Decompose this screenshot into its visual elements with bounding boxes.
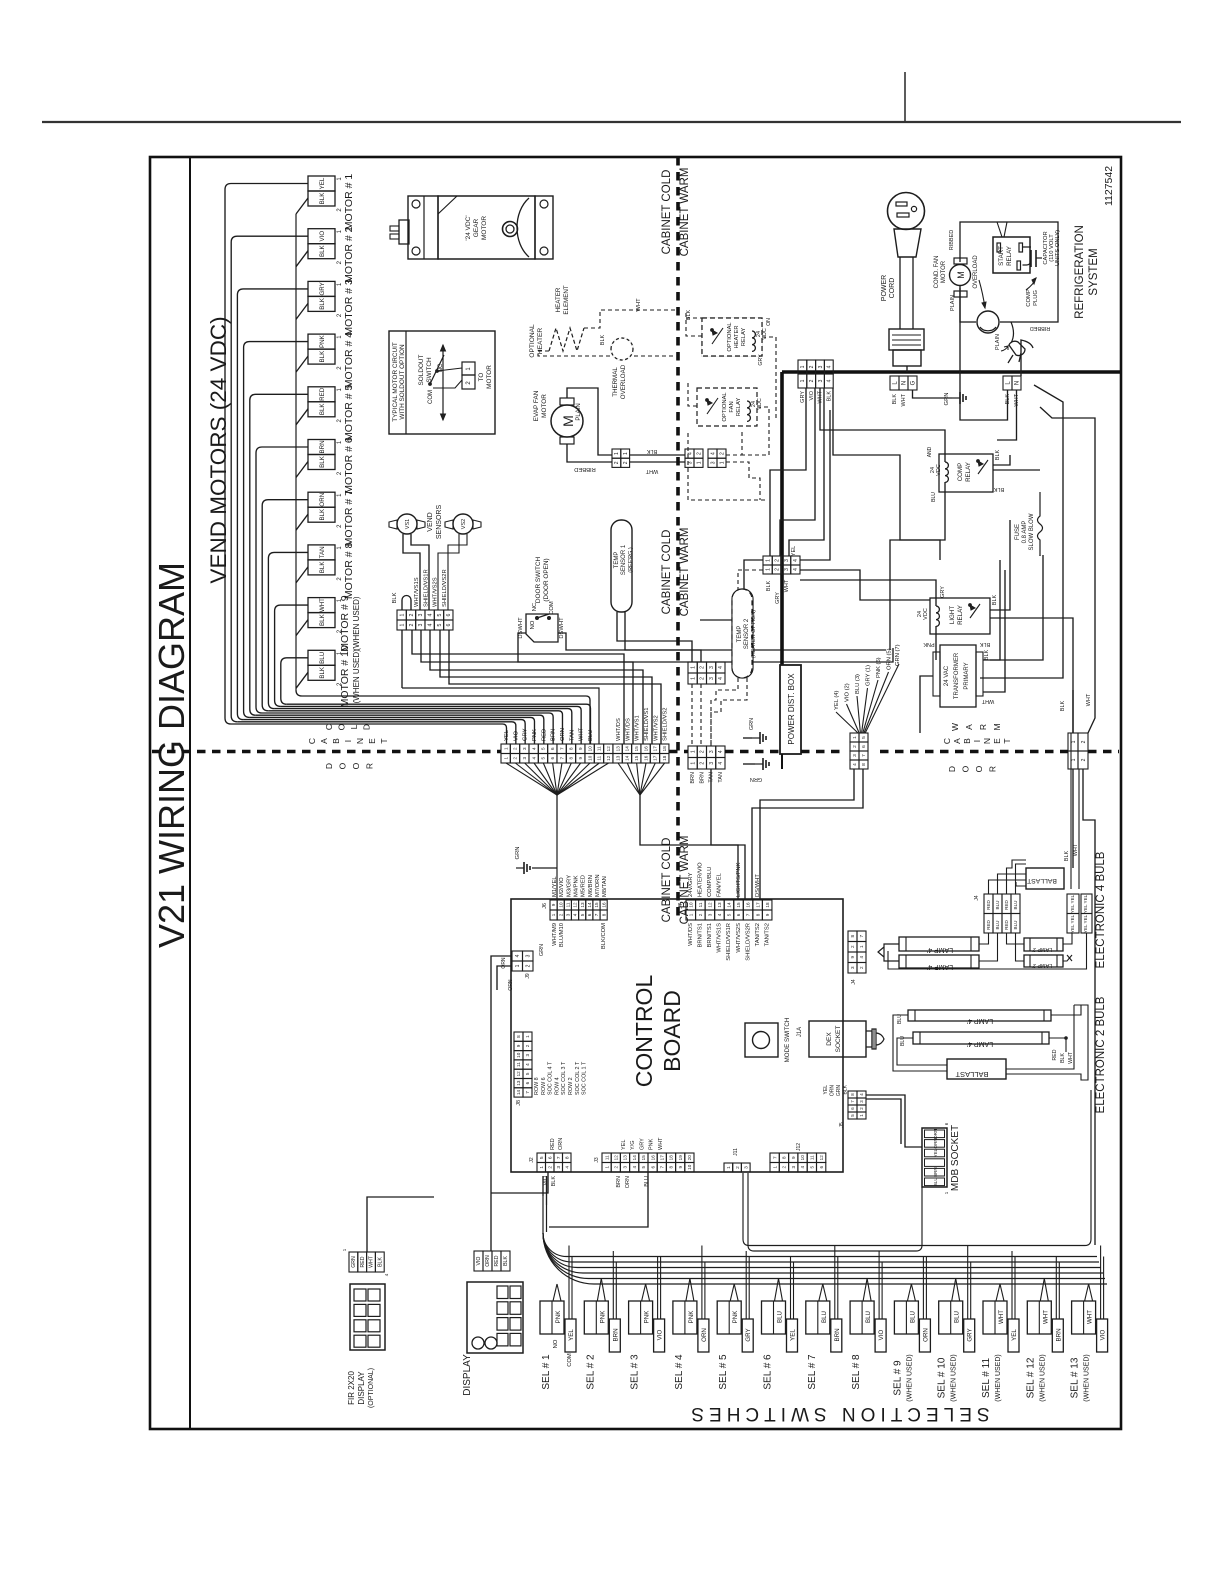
power dist box label: [780, 665, 801, 754]
svg-text:WHT: WHT: [658, 1137, 664, 1150]
svg-text:18: 18: [662, 755, 667, 761]
svg-text:4: 4: [852, 763, 858, 766]
svg-text:GRN: GRN: [351, 1256, 357, 1268]
svg-text:BLK: BLK: [600, 334, 606, 345]
svg-text:13: 13: [615, 746, 620, 752]
svg-text:17: 17: [755, 902, 760, 908]
svg-text:10: 10: [587, 755, 592, 761]
svg-text:ORN: ORN: [933, 1129, 938, 1139]
svg-text:ROW 6: ROW 6: [541, 1077, 547, 1095]
svg-text:PNK: PNK: [649, 1138, 655, 1150]
svg-text:HEATER: HEATER: [555, 287, 562, 312]
wire bus line 2 with MDB riser: [748, 1173, 922, 1251]
svg-text:1: 1: [800, 379, 806, 382]
wire evap fan to connector: [567, 388, 612, 455]
svg-text:5: 5: [541, 747, 546, 750]
svg-text:GEAR: GEAR: [473, 218, 480, 237]
svg-text:11: 11: [597, 746, 602, 751]
svg-text:BLU: BLU: [319, 652, 326, 664]
svg-text:PLAIN: PLAIN: [950, 295, 956, 311]
svg-text:5: 5: [580, 913, 585, 916]
svg-text:16: 16: [601, 902, 606, 908]
svg-text:VIO: VIO: [809, 390, 815, 400]
svg-text:SHIELD/VS2R: SHIELD/VS2R: [745, 923, 751, 961]
door lighting connector: [1068, 733, 1078, 751]
svg-text:START: START: [998, 246, 1005, 266]
svg-text:L: L: [349, 724, 359, 729]
svg-text:C: C: [942, 738, 952, 744]
svg-text:MOTOR # 10: MOTOR # 10: [339, 645, 351, 707]
svg-text:4: 4: [793, 568, 799, 571]
selection switch SEL#7: [806, 1301, 830, 1334]
svg-text:BRN: BRN: [933, 1167, 938, 1177]
svg-text:D: D: [324, 763, 334, 769]
svg-text:2: 2: [409, 613, 415, 616]
svg-text:BRN: BRN: [612, 1328, 619, 1341]
svg-text:13: 13: [615, 755, 620, 761]
lamp connector grid: [984, 894, 993, 914]
wires 2ft lamps right: [1063, 933, 1072, 944]
svg-text:SOC COL 3 T: SOC COL 3 T: [561, 1061, 567, 1095]
svg-text:ON: ON: [766, 318, 772, 326]
svg-text:ORN (5): ORN (5): [887, 648, 893, 670]
svg-text:POWER: POWER: [881, 275, 888, 301]
svg-text:DOOR SWITCH: DOOR SWITCH: [535, 557, 542, 604]
svg-text:2: 2: [547, 1166, 553, 1169]
svg-text:1: 1: [690, 762, 696, 765]
connector J11: [724, 1163, 733, 1172]
refrigeration circuit loop: [960, 222, 1058, 322]
svg-text:J2: J2: [529, 1157, 535, 1163]
wires to cabinet connector: [630, 454, 685, 456]
motor connector M2: [308, 229, 335, 244]
svg-text:SEL # 8: SEL # 8: [851, 1354, 862, 1390]
svg-text:17: 17: [659, 1155, 664, 1161]
dashed wires fan relay box: [688, 380, 697, 406]
temp sensor 1: [611, 520, 632, 612]
svg-text:6: 6: [550, 757, 555, 760]
svg-text:CABINET WARM: CABINET WARM: [679, 168, 691, 257]
svg-text:M4/PNK: M4/PNK: [573, 875, 579, 897]
svg-text:2: 2: [700, 750, 706, 753]
svg-text:OPTIONAL: OPTIONAL: [529, 324, 536, 358]
svg-text:CABINET COLD: CABINET COLD: [661, 838, 673, 923]
svg-text:TAN: TAN: [319, 546, 326, 558]
svg-text:ORN: ORN: [701, 1328, 708, 1342]
svg-text:1: 1: [503, 747, 508, 750]
svg-text:RELAY: RELAY: [957, 605, 964, 625]
svg-text:BALLAST: BALLAST: [1027, 877, 1057, 884]
wires lighting connector up: [1072, 690, 1074, 733]
svg-text:D: D: [947, 766, 957, 772]
svg-text:W: W: [950, 723, 960, 731]
svg-text:15: 15: [594, 902, 599, 908]
connector J12: [770, 1153, 779, 1163]
svg-text:BLK: BLK: [843, 1084, 849, 1094]
svg-text:RED: RED: [360, 1256, 366, 1267]
to-motor connector: [462, 362, 475, 375]
24 VDC gear motor: [408, 196, 438, 259]
page header rule: [42, 121, 1181, 123]
svg-text:YEL: YEL: [823, 1085, 829, 1095]
svg-text:1: 1: [696, 461, 702, 464]
svg-text:16: 16: [746, 902, 751, 908]
svg-text:TAN: TAN: [718, 772, 724, 783]
svg-text:6: 6: [650, 1166, 655, 1169]
svg-text:2: 2: [525, 1044, 530, 1047]
svg-text:PNK: PNK: [923, 641, 935, 647]
svg-text:RIBBED: RIBBED: [1030, 325, 1051, 331]
svg-text:BLK: BLK: [993, 486, 1004, 492]
temp sensor 2: [732, 589, 753, 678]
svg-text:1: 1: [690, 666, 696, 669]
vend sensor VS1: [397, 514, 417, 534]
svg-text:4: 4: [718, 762, 724, 765]
svg-text:BLK: BLK: [646, 448, 657, 454]
svg-text:BRN: BRN: [690, 772, 696, 784]
svg-text:O: O: [338, 762, 348, 769]
selection switch SEL#12: [1027, 1301, 1051, 1334]
svg-text:5: 5: [727, 913, 732, 916]
svg-text:E: E: [992, 738, 1002, 744]
selection switch SEL#9: [894, 1301, 918, 1334]
svg-text:J12: J12: [796, 1143, 802, 1151]
fir display box: [350, 1284, 385, 1350]
svg-text:M7/ORN: M7/ORN: [595, 874, 601, 897]
svg-text:B: B: [962, 738, 972, 744]
selection switch SEL#10: [939, 1301, 963, 1334]
wire BLK common bus: [295, 214, 297, 690]
svg-text:DSWHT: DSWHT: [518, 617, 524, 639]
selection switch SEL#1: [540, 1301, 564, 1334]
start relay: [993, 237, 1030, 273]
svg-text:2: 2: [809, 365, 815, 368]
svg-text:11: 11: [566, 902, 571, 907]
svg-text:RELAY: RELAY: [1006, 246, 1013, 266]
svg-text:C: C: [324, 724, 334, 730]
svg-text:5: 5: [437, 613, 443, 616]
wire motor 4 return: [296, 356, 308, 372]
svg-text:8: 8: [861, 763, 867, 766]
svg-text:SHIELD/VS1: SHIELD/VS1: [644, 707, 650, 741]
svg-text:1: 1: [765, 559, 771, 562]
svg-text:J3: J3: [594, 1157, 600, 1163]
wire fan to J6: [556, 795, 558, 899]
svg-text:3: 3: [784, 568, 790, 571]
svg-text:GRY: GRY: [940, 586, 946, 598]
svg-text:5: 5: [539, 1156, 545, 1159]
svg-text:1: 1: [800, 365, 806, 368]
svg-text:3: 3: [556, 1166, 562, 1169]
svg-text:6: 6: [446, 623, 452, 626]
svg-text:GRY: GRY: [967, 1328, 974, 1341]
svg-text:UNITS ONLY): UNITS ONLY): [1055, 230, 1061, 266]
svg-text:BALLAST: BALLAST: [955, 1070, 988, 1079]
svg-text:2: 2: [809, 379, 815, 382]
svg-text:GRN: GRN: [944, 393, 950, 406]
svg-text:VIO (2): VIO (2): [845, 683, 851, 702]
power dist box boundary: [782, 370, 1121, 374]
wire motor 7 return: [296, 514, 308, 530]
svg-text:BLU: BLU: [644, 1176, 650, 1187]
svg-text:12: 12: [708, 902, 713, 908]
svg-text:(WHEN USED): (WHEN USED): [1039, 1354, 1046, 1401]
svg-text:(WHEN USED): (WHEN USED): [352, 649, 361, 704]
wire fuse branch: [990, 555, 1043, 660]
24vdc distribution connector: [763, 556, 772, 565]
svg-text:SEL # 7: SEL # 7: [807, 1354, 818, 1390]
wire motor 10 return: [296, 672, 308, 688]
svg-text:BLU: BLU: [995, 901, 1000, 910]
svg-text:BLK: BLK: [319, 666, 326, 679]
svg-text:SLOW BLOW: SLOW BLOW: [1029, 513, 1035, 550]
svg-text:GRY: GRY: [775, 592, 781, 604]
svg-text:1: 1: [551, 913, 556, 916]
overload protector: [976, 310, 1000, 334]
wires SEL#8: [863, 1279, 867, 1302]
svg-text:5: 5: [810, 1166, 815, 1169]
svg-text:POWER DIST. BOX: POWER DIST. BOX: [787, 673, 796, 745]
svg-text:SOC COL 1 T: SOC COL 1 T: [582, 1061, 588, 1095]
svg-text:SHIELD/VS2: SHIELD/VS2: [663, 707, 669, 741]
svg-text:SHIELD/VS1R: SHIELD/VS1R: [726, 923, 732, 961]
svg-text:OVERLOAD: OVERLOAD: [620, 364, 627, 399]
svg-text:7: 7: [559, 757, 564, 760]
svg-text:YEL: YEL: [568, 1329, 575, 1341]
svg-text:R: R: [988, 766, 998, 772]
svg-text:MOTOR: MOTOR: [481, 216, 488, 240]
svg-text:2: 2: [513, 757, 518, 760]
svg-text:VS1: VS1: [405, 519, 411, 529]
svg-text:MOTOR # 1: MOTOR # 1: [343, 174, 355, 231]
svg-text:8: 8: [669, 1166, 674, 1169]
svg-text:4: 4: [827, 365, 833, 368]
svg-text:9: 9: [516, 1044, 521, 1047]
wires SEL#6: [775, 1279, 779, 1302]
svg-text:FAN/YEL: FAN/YEL: [717, 872, 723, 897]
svg-text:SENSORS: SENSORS: [436, 505, 443, 540]
svg-text:TAN: TAN: [569, 730, 575, 741]
svg-text:10: 10: [558, 902, 563, 908]
wire motor 9 supply: [275, 605, 308, 706]
svg-text:WITH SOLDOUT OPTION: WITH SOLDOUT OPTION: [399, 344, 406, 420]
svg-text:VS2: VS2: [461, 519, 467, 529]
svg-text:5: 5: [861, 736, 867, 739]
connector J6: [550, 900, 557, 910]
svg-text:CORD: CORD: [889, 278, 896, 299]
svg-text:BLK: BLK: [1060, 700, 1066, 711]
svg-text:6: 6: [525, 1081, 530, 1084]
svg-text:12: 12: [606, 755, 611, 761]
svg-text:(HEATER OPTION): (HEATER OPTION): [751, 610, 757, 658]
svg-text:'24 VDC': '24 VDC': [465, 215, 472, 240]
svg-text:BLK: BLK: [319, 403, 326, 416]
svg-text:N: N: [355, 738, 365, 744]
svg-text:BLK: BLK: [392, 592, 398, 603]
wire motor 6 return: [296, 462, 308, 478]
svg-text:BLK: BLK: [766, 580, 772, 591]
power cord strain relief: [889, 329, 924, 350]
24vdc harness connector: [850, 733, 859, 742]
svg-text:2: 2: [719, 452, 725, 455]
svg-text:BLK: BLK: [319, 350, 326, 363]
svg-text:BLK: BLK: [319, 455, 326, 468]
svg-text:2: 2: [859, 966, 864, 969]
svg-text:BLK: BLK: [319, 508, 326, 521]
wires comp relay: [820, 388, 945, 462]
wires 4 bulb left: [884, 944, 899, 961]
svg-text:18: 18: [765, 902, 770, 908]
wires SEL#3: [642, 1284, 646, 1301]
connector J4: [848, 931, 857, 942]
cabinet fan connector B: [708, 449, 717, 458]
svg-text:MOTOR # 4: MOTOR # 4: [343, 332, 355, 389]
svg-text:BLK: BLK: [992, 594, 998, 605]
svg-text:WHT/DS: WHT/DS: [625, 718, 631, 741]
svg-text:VIO: VIO: [878, 1329, 885, 1340]
svg-text:11: 11: [698, 902, 703, 907]
svg-text:N: N: [1015, 381, 1021, 385]
selection switch SEL#3: [629, 1301, 653, 1334]
svg-text:BLU: BLU: [865, 1311, 872, 1323]
svg-text:DISPLAY: DISPLAY: [462, 1354, 473, 1396]
svg-text:DSWHT: DSWHT: [559, 617, 565, 639]
svg-text:VDC: VDC: [762, 328, 768, 340]
svg-text:13: 13: [580, 902, 585, 908]
wire motor 7 supply: [262, 500, 308, 711]
svg-text:BLK: BLK: [1064, 850, 1070, 861]
selection switch SEL#6: [762, 1301, 786, 1334]
svg-text:SOCKET: SOCKET: [835, 1026, 842, 1053]
svg-text:8: 8: [782, 1156, 787, 1159]
svg-text:10: 10: [688, 902, 693, 908]
svg-text:NC: NC: [532, 603, 538, 611]
optional fan relay: [697, 388, 757, 426]
svg-text:TAN/TS2: TAN/TS2: [764, 923, 770, 946]
svg-text:HEATER: HEATER: [537, 328, 544, 354]
svg-text:BLK: BLK: [319, 192, 326, 205]
svg-text:3: 3: [709, 677, 715, 680]
svg-text:GRN: GRN: [515, 847, 521, 860]
door switch: [526, 614, 558, 642]
svg-text:YEL: YEL: [791, 546, 797, 556]
thermal overload: [611, 338, 633, 360]
wires SEL#5: [730, 1284, 734, 1301]
svg-text:LAMP 4': LAMP 4': [967, 1040, 993, 1047]
svg-text:RED: RED: [319, 387, 326, 401]
svg-text:8: 8: [564, 1156, 570, 1159]
cabinet sensor connector lower: [688, 746, 697, 758]
svg-text:PNK: PNK: [732, 1310, 739, 1324]
svg-text:A: A: [964, 724, 974, 730]
cabinet sensor connector upper: [688, 662, 697, 673]
wire motor 2 supply: [231, 236, 308, 722]
svg-text:19: 19: [678, 1155, 683, 1161]
wires SEL#10: [952, 1279, 956, 1302]
wires harness down to board: [760, 769, 854, 899]
svg-text:ORN: ORN: [560, 728, 566, 741]
wire motor 5 return: [296, 409, 308, 425]
svg-text:R: R: [978, 724, 988, 730]
connector J5: [848, 1091, 857, 1098]
svg-text:LAMP 4': LAMP 4': [927, 946, 953, 953]
svg-text:17: 17: [653, 755, 658, 761]
svg-text:3: 3: [522, 757, 527, 760]
svg-text:4: 4: [718, 666, 724, 669]
svg-text:13: 13: [717, 902, 722, 908]
svg-text:11: 11: [604, 1155, 609, 1160]
svg-text:4: 4: [710, 452, 716, 455]
svg-text:2: 2: [613, 1166, 618, 1169]
svg-text:8: 8: [850, 935, 855, 938]
motor connector M9: [308, 598, 335, 613]
svg-text:SENSOR 2: SENSOR 2: [744, 618, 750, 649]
svg-text:WHT: WHT: [579, 727, 585, 741]
wire motor 1 return: [296, 198, 308, 214]
wire motor 6 supply: [256, 447, 308, 713]
svg-text:5: 5: [541, 757, 546, 760]
svg-text:YEL: YEL: [933, 1148, 938, 1157]
svg-text:YEL: YEL: [1011, 1329, 1018, 1341]
svg-text:3: 3: [818, 365, 824, 368]
motor connector M10: [308, 650, 335, 665]
svg-text:GRN: GRN: [836, 1085, 842, 1097]
svg-text:3: 3: [852, 754, 858, 757]
svg-text:2: 2: [409, 623, 415, 626]
svg-text:SOC COL 4 T: SOC COL 4 T: [548, 1061, 554, 1095]
svg-text:NO: NO: [553, 1339, 559, 1348]
selection switch SEL#4: [673, 1301, 697, 1334]
svg-text:WHT/DS: WHT/DS: [616, 718, 622, 741]
svg-text:8: 8: [516, 1035, 521, 1038]
svg-text:BLK: BLK: [377, 1257, 383, 1267]
svg-text:VIO: VIO: [319, 231, 326, 242]
svg-text:4: 4: [632, 1166, 637, 1169]
svg-text:WHT/VS2: WHT/VS2: [653, 715, 659, 741]
svg-text:4: 4: [800, 1166, 805, 1169]
svg-text:I: I: [972, 740, 982, 742]
wire bus feed: [542, 1196, 544, 1233]
svg-text:R: R: [365, 763, 375, 769]
svg-text:7: 7: [556, 1156, 562, 1159]
svg-text:SEL # 3: SEL # 3: [630, 1354, 641, 1390]
svg-text:O: O: [337, 723, 347, 730]
svg-text:Y/G: Y/G: [630, 1141, 636, 1150]
wire sensor connector down: [711, 769, 745, 899]
svg-text:ORN: ORN: [625, 1176, 631, 1188]
svg-text:(WHEN USED): (WHEN USED): [995, 1354, 1002, 1401]
svg-text:NO: NO: [530, 620, 536, 629]
svg-text:6: 6: [547, 1156, 553, 1159]
evap fan motor: [551, 405, 583, 437]
svg-text:SEL # 5: SEL # 5: [718, 1354, 729, 1390]
lamp 2ft lower: [1024, 955, 1063, 967]
svg-text:BOARD: BOARD: [659, 990, 685, 1072]
svg-text:RELAY: RELAY: [965, 462, 972, 482]
svg-text:CONTROL: CONTROL: [631, 975, 657, 1088]
svg-text:WHT/M9: WHT/M9: [552, 923, 558, 946]
motor connector M7: [308, 492, 335, 507]
svg-text:8: 8: [755, 913, 760, 916]
wire motor 8 return: [296, 567, 308, 583]
svg-text:WHT/VS2S: WHT/VS2S: [736, 923, 742, 953]
wires sensor connector to door pins: [412, 630, 624, 744]
svg-text:E: E: [367, 738, 377, 744]
svg-text:FIR 2X20: FIR 2X20: [347, 1371, 356, 1405]
wire BLK loop: [402, 596, 411, 611]
svg-text:M8/TAN: M8/TAN: [602, 876, 608, 897]
wire VS1 to pins: [403, 534, 420, 610]
